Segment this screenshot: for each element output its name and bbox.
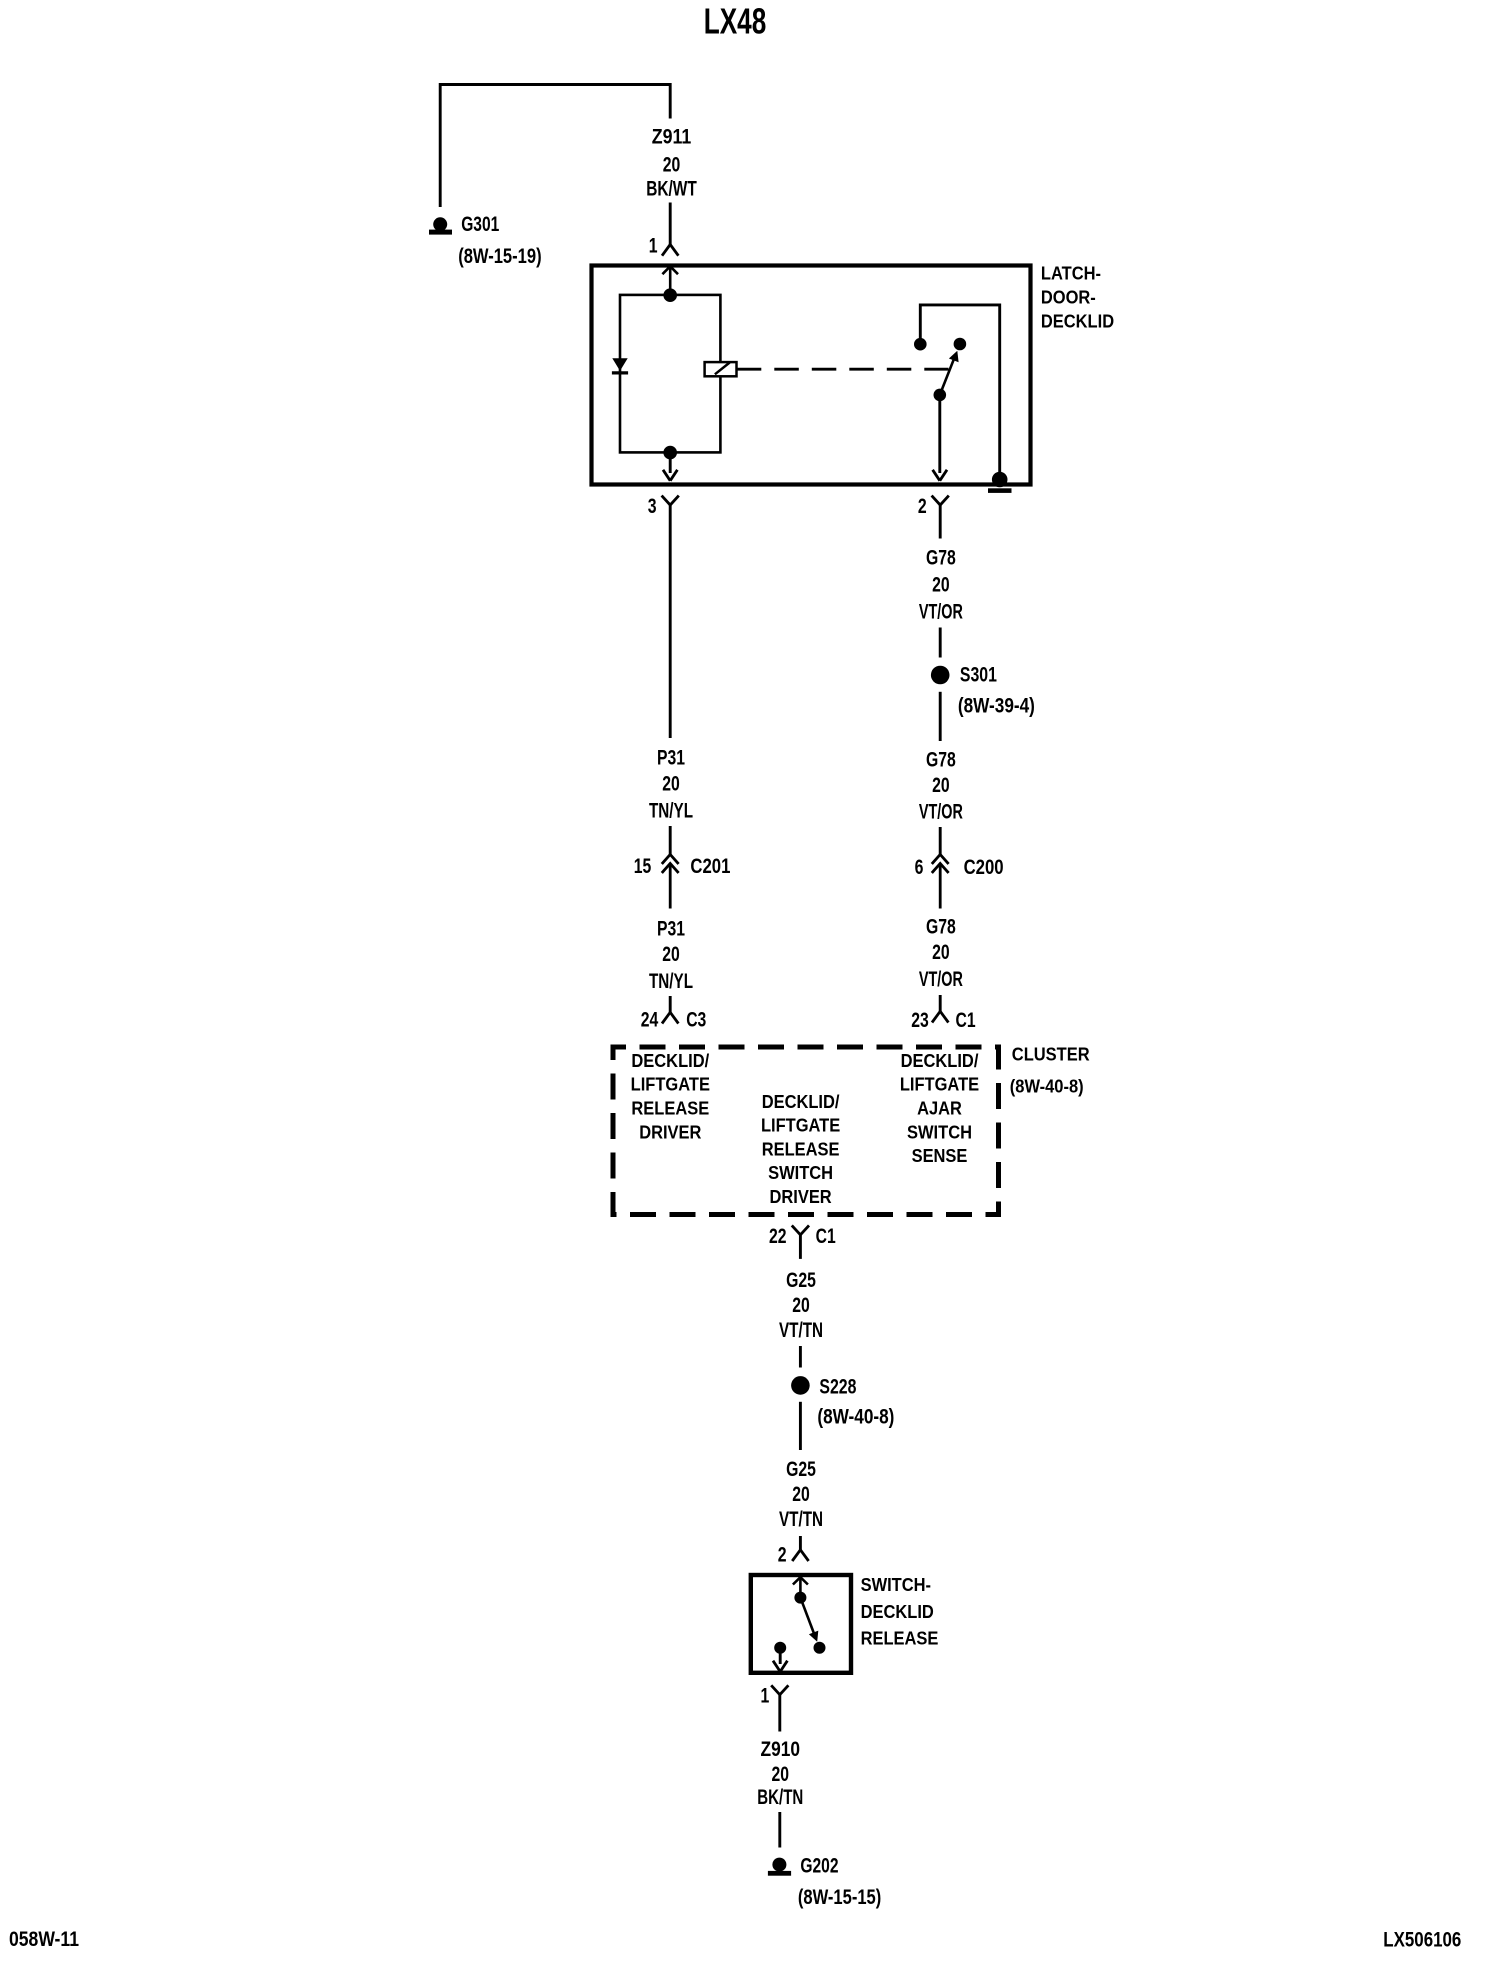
svg-text:(8W-40-8): (8W-40-8) [1010, 1075, 1084, 1096]
wire G78 to pin 23 [939, 995, 942, 1011]
label SWITCH-DECKLID RELEASE [861, 1574, 939, 1649]
arrow pin 3 exit [663, 470, 670, 481]
svg-text:LIFTGATE: LIFTGATE [761, 1115, 840, 1136]
latch switch pivot [934, 389, 947, 402]
svg-text:2: 2 [918, 495, 927, 518]
svg-text:2: 2 [778, 1543, 787, 1566]
svg-text:20: 20 [792, 1483, 810, 1506]
decklid release switch box [751, 1575, 851, 1673]
svg-text:VT/OR: VT/OR [919, 801, 963, 824]
wire G78 to C200 [939, 827, 942, 855]
svg-text:20: 20 [663, 153, 681, 176]
svg-text:1: 1 [649, 234, 658, 257]
wire G78 to S301 [939, 628, 942, 658]
svg-text:22: 22 [769, 1225, 787, 1248]
svg-text:C201: C201 [690, 855, 730, 878]
svg-text:RELEASE: RELEASE [861, 1628, 939, 1649]
dashed actuation link [737, 368, 949, 371]
relay coil [705, 362, 737, 376]
svg-text:6: 6 [915, 856, 924, 879]
pin 24 connector [662, 1012, 670, 1023]
switch upper contact [794, 1592, 806, 1604]
svg-text:(8W-15-19): (8W-15-19) [458, 245, 541, 268]
svg-text:23: 23 [911, 1009, 929, 1032]
svg-text:(8W-39-4): (8W-39-4) [958, 695, 1035, 718]
svg-text:G78: G78 [926, 749, 956, 772]
pin 3 connector [662, 496, 671, 505]
svg-text:P31: P31 [657, 917, 685, 940]
svg-text:C1: C1 [816, 1225, 836, 1248]
switch fixed contact [774, 1642, 786, 1654]
pin 1 bottom connector [771, 1685, 780, 1694]
svg-text:DECKLID: DECKLID [861, 1601, 934, 1622]
splice S301 [931, 666, 950, 685]
svg-text:G202: G202 [800, 1854, 838, 1877]
svg-text:BK/WT: BK/WT [646, 177, 697, 200]
wire G25 to switch pin 2 [799, 1536, 802, 1550]
svg-text:20: 20 [772, 1763, 790, 1786]
svg-text:24: 24 [641, 1008, 659, 1031]
wire label P31 20 TN/YL upper [649, 747, 693, 823]
ground G301 [429, 217, 452, 234]
wire Z910 lower [778, 1812, 781, 1848]
svg-text:LX506106: LX506106 [1383, 1929, 1461, 1952]
wire Z911 to G301 [440, 85, 670, 208]
wire S301 to label [939, 692, 942, 741]
wire Z911 lower [669, 203, 672, 245]
wire G25 to S228 [799, 1346, 802, 1368]
svg-text:Z911: Z911 [652, 126, 692, 149]
connector C201 symbol [662, 855, 679, 909]
svg-text:15: 15 [634, 855, 652, 878]
wire label G25 20 VT/TN upper [779, 1269, 823, 1342]
svg-text:TN/YL: TN/YL [649, 970, 693, 993]
wire label Z911 20 BK/WT [646, 126, 697, 201]
wire pivot to pin 2 [938, 395, 941, 473]
wire label P31 20 TN/YL lower [649, 917, 693, 993]
svg-text:058W-11: 058W-11 [9, 1928, 79, 1951]
diode D1 [612, 358, 628, 373]
arrow pin 2 exit [933, 470, 940, 481]
svg-text:DECKLID/: DECKLID/ [631, 1050, 709, 1071]
cluster module box [613, 1047, 999, 1215]
wire label Z910 20 BK/TN [757, 1738, 803, 1809]
pin 2 switch connector [792, 1550, 800, 1561]
svg-text:G78: G78 [926, 915, 956, 938]
svg-text:LIFTGATE: LIFTGATE [900, 1074, 979, 1095]
wire fixed contact to pin 1 [779, 1648, 782, 1664]
arrow pin 1 exit [773, 1661, 780, 1672]
label decklid/liftgate release driver [631, 1050, 710, 1142]
svg-text:20: 20 [662, 943, 680, 966]
wire P31 to pin 24 [669, 996, 672, 1012]
svg-text:G301: G301 [461, 213, 499, 236]
svg-text:G25: G25 [786, 1269, 816, 1292]
svg-text:CLUSTER: CLUSTER [1012, 1044, 1090, 1065]
svg-text:C200: C200 [964, 856, 1004, 879]
label decklid/liftgate ajar switch sense [900, 1050, 979, 1166]
svg-text:SWITCH: SWITCH [768, 1162, 833, 1183]
svg-text:20: 20 [662, 773, 680, 796]
ground latch internal [988, 472, 1012, 493]
svg-text:DECKLID/: DECKLID/ [901, 1050, 979, 1071]
wire S228 to label [799, 1402, 802, 1450]
wire G78 upper [939, 505, 942, 539]
latch assembly box [592, 266, 1031, 485]
latch switch arm [940, 351, 959, 395]
svg-text:S301: S301 [960, 663, 997, 686]
svg-text:VT/TN: VT/TN [779, 1319, 823, 1342]
pin 23 connector [932, 1011, 940, 1022]
svg-text:RELEASE: RELEASE [631, 1098, 709, 1119]
wire junction to pin 3 [669, 453, 672, 473]
svg-text:C3: C3 [686, 1008, 706, 1031]
pin 2 connector [932, 496, 941, 505]
svg-text:1: 1 [761, 1684, 770, 1707]
svg-text:DECKLID: DECKLID [1041, 310, 1114, 331]
svg-text:P31: P31 [657, 747, 685, 770]
svg-text:RELEASE: RELEASE [762, 1138, 840, 1159]
svg-text:C1: C1 [956, 1009, 976, 1032]
latch pin 1 arrow [662, 266, 670, 274]
svg-text:LIFTGATE: LIFTGATE [631, 1074, 710, 1095]
wire Z910 upper [778, 1695, 781, 1732]
svg-text:SWITCH-: SWITCH- [861, 1574, 931, 1595]
connector C200 symbol [932, 855, 949, 909]
switch pin 2 arrow [793, 1577, 801, 1584]
wire P31 to C201 [669, 826, 672, 855]
svg-text:20: 20 [932, 774, 950, 797]
svg-text:BK/TN: BK/TN [757, 1786, 803, 1809]
svg-text:DRIVER: DRIVER [639, 1122, 701, 1143]
label LATCH-DOOR-DECKLID [1041, 262, 1114, 331]
switch moving contact [814, 1642, 826, 1654]
svg-text:(8W-15-15): (8W-15-15) [798, 1886, 881, 1909]
node top junction [663, 288, 677, 302]
wire label G78 20 VT/OR lower [919, 915, 963, 991]
svg-text:S228: S228 [819, 1375, 856, 1398]
svg-text:DECKLID/: DECKLID/ [762, 1091, 840, 1112]
splice S228 [791, 1376, 810, 1395]
svg-text:AJAR: AJAR [917, 1098, 962, 1119]
svg-text:20: 20 [932, 941, 950, 964]
svg-text:SWITCH: SWITCH [907, 1122, 972, 1143]
svg-text:LX48: LX48 [704, 0, 767, 41]
svg-text:SENSE: SENSE [912, 1145, 968, 1166]
svg-text:LATCH-: LATCH- [1041, 262, 1101, 283]
svg-text:Z910: Z910 [761, 1738, 801, 1761]
svg-text:VT/OR: VT/OR [919, 600, 963, 623]
svg-text:DRIVER: DRIVER [770, 1186, 832, 1207]
node bottom junction [663, 446, 677, 460]
svg-text:G25: G25 [786, 1458, 816, 1481]
coil loop rect [620, 295, 720, 453]
pin 22 connector [792, 1225, 801, 1234]
switch arm [800, 1598, 818, 1642]
wire label G78 20 VT/OR upper [919, 547, 963, 624]
svg-text:VT/OR: VT/OR [919, 968, 963, 991]
wire label G78 20 VT/OR middle [919, 749, 963, 824]
svg-text:DOOR-: DOOR- [1041, 286, 1096, 307]
svg-text:VT/TN: VT/TN [779, 1508, 823, 1531]
svg-text:G78: G78 [926, 547, 956, 570]
wire P31 upper [669, 505, 672, 738]
svg-text:3: 3 [648, 495, 657, 518]
label decklid/liftgate release switch driver [761, 1091, 840, 1207]
svg-text:20: 20 [792, 1294, 810, 1317]
wire pin22 stem [799, 1235, 802, 1259]
pin 1 connector [662, 245, 670, 256]
svg-text:(8W-40-8): (8W-40-8) [817, 1406, 894, 1429]
wire switch to ground [920, 305, 999, 481]
latch switch open contact [954, 338, 967, 351]
svg-text:20: 20 [932, 573, 950, 596]
ground G202 [768, 1858, 791, 1876]
latch switch fixed contact [914, 338, 927, 351]
svg-text:TN/YL: TN/YL [649, 799, 693, 822]
wire label G25 20 VT/TN lower [779, 1458, 823, 1531]
